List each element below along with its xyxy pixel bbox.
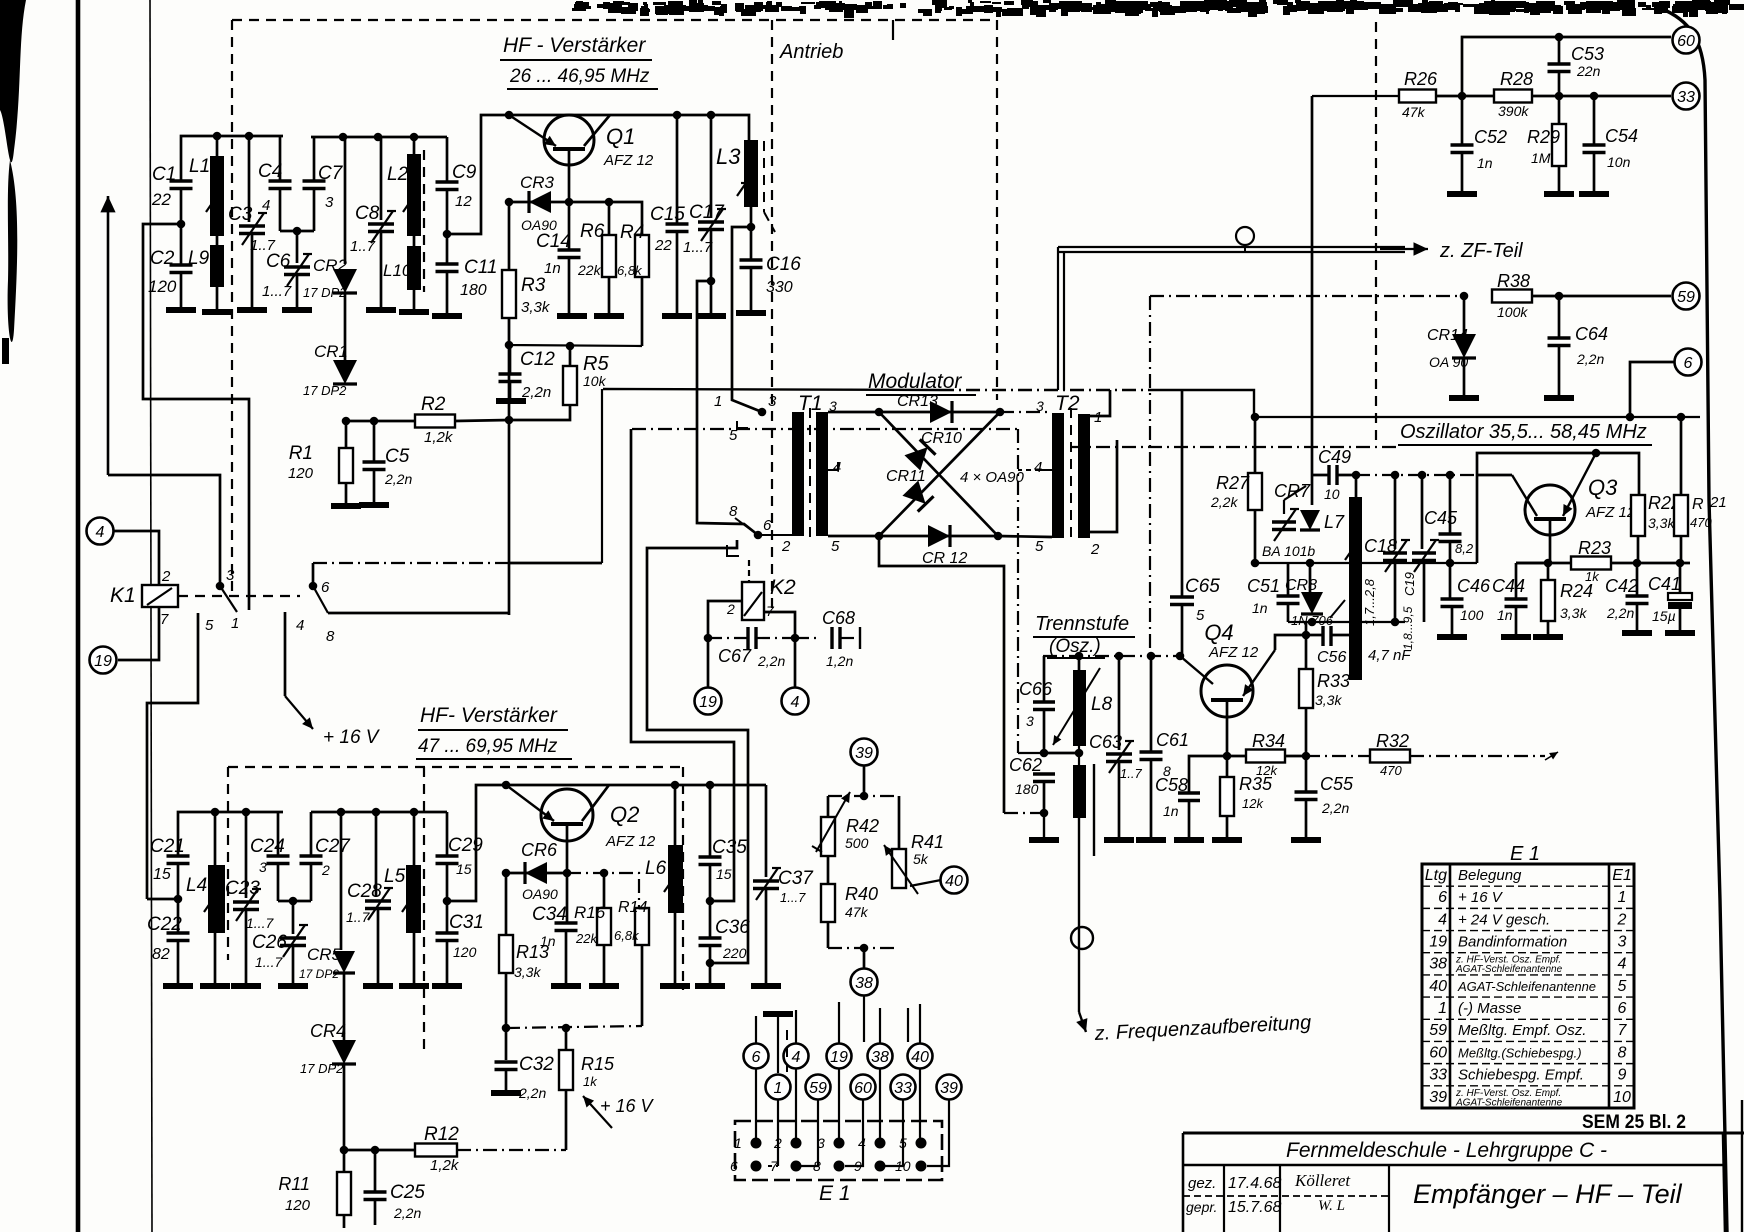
- ground under C61: [1136, 837, 1166, 843]
- transformer T1: [729, 392, 841, 555]
- resistor R2: [346, 394, 509, 446]
- capacitor C1: [151, 164, 193, 224]
- svg-text:2: 2: [781, 538, 791, 555]
- svg-text:33: 33: [1677, 89, 1695, 106]
- svg-text:3: 3: [259, 859, 267, 875]
- resistor R1: [288, 421, 353, 506]
- svg-text:2: 2: [726, 601, 735, 617]
- ground under C55: [1291, 837, 1321, 843]
- svg-text:+ 16 V: + 16 V: [600, 1096, 655, 1116]
- svg-text:R35: R35: [1239, 774, 1273, 794]
- svg-text:C7: C7: [318, 163, 344, 184]
- svg-text:4: 4: [858, 1135, 866, 1151]
- svg-text:L8: L8: [1091, 694, 1113, 715]
- svg-text:L4: L4: [186, 875, 207, 896]
- svg-text:1..7: 1..7: [1120, 766, 1142, 781]
- svg-text:C64: C64: [1575, 324, 1608, 344]
- capacitor C53: [1548, 37, 1605, 96]
- wire Q3 collector to osc row: [1477, 474, 1512, 477]
- resistor R41 potentiometer: [884, 796, 944, 894]
- svg-text:C36: C36: [715, 917, 750, 938]
- node C1-C2 junction: [177, 220, 186, 229]
- capacitor C56: [1306, 626, 1411, 666]
- svg-text:5k: 5k: [913, 851, 929, 867]
- capacitor C28 variable: [346, 812, 393, 986]
- ground under C63: [1104, 837, 1134, 843]
- svg-text:22n: 22n: [1576, 63, 1601, 79]
- svg-text:C45: C45: [1424, 508, 1458, 528]
- table row line: [1422, 930, 1634, 932]
- resistor R12: [344, 1124, 566, 1174]
- svg-text:38: 38: [855, 975, 873, 992]
- svg-text:z. ZF-Teil: z. ZF-Teil: [1439, 240, 1523, 262]
- svg-text:C49: C49: [1318, 447, 1351, 467]
- wire ring bottom to K2 area: [879, 536, 1004, 813]
- svg-text:CR7: CR7: [1274, 481, 1311, 501]
- svg-text:40: 40: [1429, 978, 1447, 995]
- svg-text:1n: 1n: [1477, 155, 1493, 171]
- svg-text:Q2: Q2: [610, 802, 639, 827]
- inductor L7: [1324, 475, 1362, 680]
- svg-text:2: 2: [321, 862, 330, 878]
- svg-text:1...7: 1...7: [262, 283, 292, 300]
- transistor Q3: [1512, 453, 1636, 563]
- ground under C36: [695, 983, 725, 989]
- svg-text:2,2n: 2,2n: [1576, 351, 1604, 367]
- svg-text:60: 60: [1677, 33, 1695, 50]
- capacitor C17 variable: [683, 115, 726, 316]
- dashed vertical x997: [996, 20, 998, 400]
- ground under R24: [1533, 634, 1563, 640]
- svg-text:40: 40: [911, 1049, 929, 1066]
- svg-text:220: 220: [722, 945, 747, 961]
- T1 secondary pin4 stub: [828, 462, 838, 470]
- svg-text:1: 1: [231, 615, 239, 632]
- pot block bottom rail: [828, 947, 899, 949]
- svg-text:22: 22: [654, 237, 672, 254]
- scan edge artifact top band: [572, 0, 1744, 18]
- wire chainA C36 tap via T1 tap4: [647, 540, 748, 963]
- svg-text:R33: R33: [1317, 671, 1350, 691]
- svg-text:8: 8: [729, 503, 738, 520]
- svg-text:120: 120: [148, 277, 177, 296]
- node CR3 left: [505, 198, 514, 207]
- capacitor C3 variable: [228, 136, 276, 310]
- diode CR12: [879, 525, 998, 567]
- wire top rail to 60: [1462, 37, 1671, 96]
- wire to Q3 emitter rail: [1477, 453, 1639, 495]
- node C21-C22 junction: [174, 895, 183, 904]
- svg-text:CR11: CR11: [886, 468, 926, 485]
- terminal 60: [1673, 27, 1700, 54]
- svg-text:4: 4: [1034, 459, 1042, 476]
- svg-text:AFZ 12: AFZ 12: [603, 152, 654, 169]
- wire osc bottom row: [1288, 621, 1405, 623]
- capacitor C7: [303, 137, 344, 231]
- node T1 pin3: [758, 408, 767, 417]
- inductor L2: [387, 137, 421, 236]
- svg-text:82: 82: [152, 946, 170, 963]
- svg-text:2: 2: [1090, 541, 1100, 558]
- svg-text:2: 2: [161, 568, 171, 585]
- svg-text:AFZ 12: AFZ 12: [1208, 644, 1259, 661]
- contact 4 stub: [284, 612, 287, 696]
- terminal row lower 60: [851, 1075, 876, 1100]
- node Q2 base: [563, 869, 572, 878]
- svg-text:33: 33: [894, 1080, 912, 1097]
- svg-text:C62: C62: [1009, 755, 1042, 775]
- svg-text:R41: R41: [911, 832, 944, 852]
- svg-text:120: 120: [288, 465, 314, 482]
- wire terminal39 down: [863, 766, 866, 796]
- svg-text:C22: C22: [147, 914, 182, 935]
- ground under C14: [557, 313, 587, 319]
- dashed osc top: [1070, 446, 1398, 448]
- capacitor C15: [650, 115, 689, 316]
- svg-text:10k: 10k: [583, 373, 607, 389]
- dashed Antrieb beside L3: [763, 141, 765, 212]
- terminal row lower 33: [891, 1075, 916, 1100]
- svg-text:4: 4: [1618, 956, 1627, 973]
- ground under C22: [163, 983, 193, 989]
- ground under C6: [282, 307, 312, 313]
- svg-text:17 DP2: 17 DP2: [303, 383, 347, 398]
- diode CR4: [300, 973, 356, 1076]
- svg-text:6: 6: [1438, 889, 1447, 906]
- wire top rail stage1 right: [311, 136, 447, 139]
- svg-text:R38: R38: [1497, 271, 1530, 291]
- svg-text:1n: 1n: [1163, 803, 1179, 819]
- ground under C16: [736, 310, 766, 316]
- svg-text:19: 19: [699, 694, 717, 711]
- svg-text:C23: C23: [225, 878, 260, 899]
- svg-text:2,2n: 2,2n: [384, 471, 412, 487]
- resistor R38: [1492, 271, 1532, 320]
- wire x509 vertical: [508, 345, 511, 615]
- antenna arrow: [107, 196, 110, 475]
- inductor L8 bottom: [1073, 765, 1086, 818]
- dashed stubs above connector: [786, 1030, 788, 1072]
- capacitor C32: [495, 1028, 555, 1101]
- svg-text:+ 16 V: + 16 V: [323, 727, 381, 748]
- svg-text:1...7: 1...7: [255, 954, 283, 970]
- svg-text:9: 9: [1618, 1067, 1627, 1084]
- ground under C8: [366, 307, 396, 313]
- capacitor C2: [148, 224, 193, 310]
- open circle on osc output: [1071, 927, 1093, 949]
- measure point circle: [1236, 227, 1254, 245]
- svg-text:R4: R4: [620, 222, 644, 243]
- svg-text:CR8: CR8: [1285, 577, 1317, 594]
- table row line: [1422, 1018, 1634, 1020]
- ground under C17: [696, 313, 726, 319]
- capacitor C54: [1583, 96, 1639, 194]
- E1 pins bottom row: [751, 1161, 762, 1172]
- node C17 tap: [707, 277, 716, 286]
- ground under C54: [1579, 191, 1609, 197]
- svg-text:C24: C24: [250, 836, 285, 857]
- svg-text:7: 7: [1618, 1022, 1628, 1039]
- ground under L6: [660, 983, 690, 989]
- wire top rail stage2 left: [178, 812, 283, 856]
- +16V arrow at R15: [583, 1096, 612, 1128]
- capacitor C26 variable: [252, 901, 308, 986]
- svg-text:6: 6: [321, 579, 330, 596]
- svg-text:390k: 390k: [1498, 103, 1529, 119]
- capacitor C12: [499, 345, 556, 401]
- contact 6: [309, 582, 318, 591]
- svg-text:AFZ 12: AFZ 12: [1585, 504, 1636, 521]
- svg-text:3: 3: [1036, 398, 1044, 414]
- svg-text:1,2k: 1,2k: [430, 1157, 460, 1174]
- wire R34 to R33 bottom: [1285, 755, 1306, 758]
- svg-text:60: 60: [854, 1080, 872, 1097]
- capacitor C42: [1605, 563, 1649, 633]
- wire K2 right down: [764, 612, 795, 638]
- svg-text:L9: L9: [188, 248, 210, 269]
- svg-text:1,2n: 1,2n: [826, 653, 853, 669]
- svg-text:17 DP2: 17 DP2: [303, 285, 347, 300]
- svg-text:38: 38: [871, 1049, 889, 1066]
- svg-text:38: 38: [1429, 956, 1447, 973]
- wire osc mid row: [1255, 562, 1477, 564]
- resistor R27: [1210, 417, 1262, 563]
- diode CR14: [1427, 296, 1476, 398]
- capacitor C65: [1170, 390, 1220, 656]
- svg-text:15.7.68: 15.7.68: [1228, 1199, 1281, 1216]
- svg-text:3,3k: 3,3k: [1560, 605, 1587, 621]
- svg-text:180: 180: [1015, 781, 1039, 797]
- terminal 40: [941, 867, 968, 894]
- svg-text:L1: L1: [189, 156, 210, 177]
- svg-text:6: 6: [730, 1158, 738, 1174]
- svg-text:(Osz.): (Osz.): [1049, 636, 1101, 657]
- terminal 39 upper: [851, 739, 878, 766]
- svg-text:C63: C63: [1089, 732, 1122, 752]
- svg-text:Trennstufe: Trennstufe: [1035, 613, 1129, 635]
- table row line: [1422, 952, 1634, 954]
- svg-text:R40: R40: [845, 884, 878, 904]
- wire K1 to terminal 19: [118, 607, 159, 660]
- resistor R11: [278, 1150, 351, 1228]
- wire Q2 base row to R16 R14: [567, 873, 639, 908]
- ground under L10: [399, 309, 429, 315]
- svg-text:1n: 1n: [1497, 607, 1513, 623]
- svg-text:C37: C37: [778, 868, 814, 889]
- capacitor C62: [1009, 755, 1055, 813]
- svg-text:C6: C6: [266, 251, 291, 272]
- svg-text:C41: C41: [1648, 574, 1681, 594]
- svg-text:4: 4: [1438, 911, 1447, 928]
- capacitor C18 variable: [1362, 475, 1410, 626]
- svg-text:C55: C55: [1320, 774, 1354, 794]
- svg-text:22: 22: [151, 190, 171, 209]
- wire K2 left to C67: [708, 601, 742, 638]
- svg-text:6: 6: [752, 1049, 761, 1066]
- diode CR1: [303, 292, 357, 398]
- svg-text:8: 8: [813, 1158, 821, 1174]
- ground above E1: [763, 1011, 793, 1017]
- capacitor C46: [1441, 563, 1492, 637]
- node Q4 base bottom: [1223, 752, 1232, 761]
- diode CR6: [506, 840, 567, 902]
- capacitor C58: [1155, 756, 1246, 840]
- svg-text:4: 4: [792, 1049, 801, 1066]
- connector E1 box: [735, 1121, 942, 1180]
- svg-text:1,7...2,8: 1,7...2,8: [1362, 578, 1377, 626]
- svg-text:CR4: CR4: [310, 1021, 346, 1041]
- svg-text:19: 19: [1429, 934, 1447, 951]
- svg-text:CR1: CR1: [314, 342, 348, 361]
- svg-text:1..7: 1..7: [350, 238, 376, 255]
- wire terminal4 to K1: [114, 531, 159, 585]
- dashed boundary HF-Verstaerker 1 top: [232, 19, 997, 21]
- contact 5 stub: [147, 613, 198, 899]
- wire R3 bottom to R4 bottom: [509, 318, 642, 346]
- ground under C58: [1174, 837, 1204, 843]
- svg-text:19: 19: [94, 653, 112, 670]
- wire C29 node to Q2 rail: [447, 785, 675, 901]
- svg-text:R26: R26: [1404, 69, 1438, 89]
- svg-text:1,8...9,5: 1,8...9,5: [1401, 606, 1415, 650]
- svg-text:3: 3: [1618, 934, 1627, 951]
- terminal 6: [1675, 349, 1702, 376]
- svg-text:4 × OA90: 4 × OA90: [960, 469, 1024, 486]
- svg-text:5: 5: [1035, 538, 1044, 555]
- coil ticks: [206, 199, 215, 212]
- svg-text:5: 5: [729, 427, 738, 444]
- svg-text:C68: C68: [822, 608, 855, 628]
- svg-text:C58: C58: [1155, 775, 1188, 795]
- svg-text:1: 1: [734, 1135, 742, 1151]
- capacitor C51: [1247, 563, 1300, 622]
- capacitor C45: [1424, 475, 1474, 563]
- svg-text:gepr.: gepr.: [1186, 1199, 1217, 1215]
- svg-text:3: 3: [226, 567, 235, 584]
- svg-text:CR6: CR6: [521, 840, 558, 860]
- svg-text:8,2: 8,2: [1455, 541, 1474, 556]
- ground under C44: [1501, 634, 1531, 640]
- svg-text:4: 4: [791, 694, 800, 711]
- table row line: [1422, 996, 1634, 998]
- svg-text:R14: R14: [618, 899, 647, 916]
- svg-text:AGAT-Schleifenantenne: AGAT-Schleifenantenne: [1457, 979, 1596, 994]
- svg-text:17 DP2: 17 DP2: [300, 1061, 344, 1076]
- svg-text:1M: 1M: [1531, 150, 1551, 166]
- svg-text:6,8k: 6,8k: [614, 928, 640, 943]
- ground under C31: [432, 983, 462, 989]
- svg-text:1..7: 1..7: [346, 909, 371, 925]
- capacitor C21: [150, 836, 190, 899]
- svg-text:1k: 1k: [1585, 569, 1600, 584]
- wire ring top right to T2: [1000, 411, 1052, 413]
- svg-text:C17: C17: [689, 202, 725, 223]
- svg-text:K1: K1: [110, 584, 136, 607]
- svg-text:10n: 10n: [1607, 154, 1631, 170]
- resistor R15: [559, 1028, 615, 1150]
- svg-text:3,3k: 3,3k: [1315, 692, 1342, 708]
- wire Q3 base junction: [1516, 562, 1550, 565]
- capacitor C35: [699, 785, 748, 901]
- capacitor C27: [300, 812, 352, 901]
- wire y417 oscillator rail: [1254, 416, 1700, 418]
- capacitor C22: [147, 899, 190, 986]
- capacitor C5: [363, 417, 413, 505]
- node Q2 rail dots: [502, 781, 511, 790]
- svg-text:6: 6: [1684, 355, 1693, 372]
- capacitor C34: [532, 873, 578, 986]
- capacitor C36: [699, 901, 751, 986]
- svg-text:3: 3: [817, 1135, 825, 1151]
- svg-text:L3: L3: [716, 144, 741, 169]
- svg-text:100: 100: [1460, 607, 1484, 623]
- wire top rail stage2 right: [311, 811, 447, 814]
- node C9 bottom: [443, 230, 452, 239]
- svg-text:R12: R12: [424, 1124, 459, 1145]
- wire contact8 row: [328, 612, 509, 615]
- svg-text:1n: 1n: [1252, 600, 1268, 616]
- svg-text:Meßltg.(Schiebespg.): Meßltg.(Schiebespg.): [1458, 1045, 1582, 1060]
- diode CR11 diagonal: [879, 412, 1000, 536]
- wire T2 pin4 drop: [1017, 429, 1019, 753]
- svg-text:C46: C46: [1457, 576, 1491, 596]
- wire C9 node to Q1 rail: [447, 115, 749, 234]
- svg-text:59: 59: [809, 1080, 827, 1097]
- terminal 33: [1673, 83, 1700, 110]
- svg-text:5: 5: [205, 617, 214, 634]
- terminal 4 modulator: [782, 688, 809, 715]
- E1 pins top row: [751, 1138, 762, 1149]
- svg-text:Schiebespg. Empf.: Schiebespg. Empf.: [1458, 1067, 1584, 1084]
- ground under L4: [200, 983, 230, 989]
- svg-text:15µ: 15µ: [1652, 608, 1676, 624]
- resistor R5: [509, 346, 609, 420]
- inductor L10: [383, 236, 421, 312]
- wire C24-C27 to C26: [278, 900, 311, 903]
- svg-text:AGAT-Schleifenantenne: AGAT-Schleifenantenne: [1455, 964, 1563, 975]
- capacitor C63 variable: [1089, 656, 1142, 840]
- svg-text:3,3k: 3,3k: [521, 299, 551, 316]
- ground under C64: [1544, 395, 1574, 401]
- svg-text:1,2k: 1,2k: [424, 429, 454, 446]
- svg-text:R1: R1: [289, 443, 313, 464]
- svg-text:OA90: OA90: [522, 886, 558, 902]
- capacitor C49: [1312, 447, 1356, 502]
- svg-text:22k: 22k: [575, 931, 598, 946]
- capacitor C25: [364, 1146, 426, 1225]
- svg-text:C3: C3: [228, 204, 253, 225]
- svg-text:8: 8: [1618, 1044, 1627, 1061]
- T1 tap stub 5: [737, 421, 748, 428]
- table row line: [1422, 907, 1634, 909]
- svg-text:10: 10: [895, 1158, 911, 1174]
- svg-text:10: 10: [1324, 486, 1340, 502]
- svg-text:CR2: CR2: [313, 256, 348, 275]
- svg-text:2,2n: 2,2n: [1606, 605, 1634, 621]
- svg-text:C9: C9: [452, 162, 477, 183]
- svg-text:CR13: CR13: [897, 393, 938, 410]
- ground under C34: [551, 983, 581, 989]
- E1 pin links: [768, 1165, 778, 1167]
- table E1 box: [1422, 864, 1634, 1108]
- wire x697 C17 tap to T1 pin8: [697, 281, 758, 535]
- svg-text:120: 120: [453, 944, 477, 960]
- wire C1 junction to K1 contact 1: [143, 224, 249, 610]
- terminal 59: [1673, 283, 1700, 310]
- svg-text:R32: R32: [1376, 731, 1409, 751]
- ground under C15: [662, 313, 692, 319]
- terminal row lower 1: [766, 1075, 791, 1100]
